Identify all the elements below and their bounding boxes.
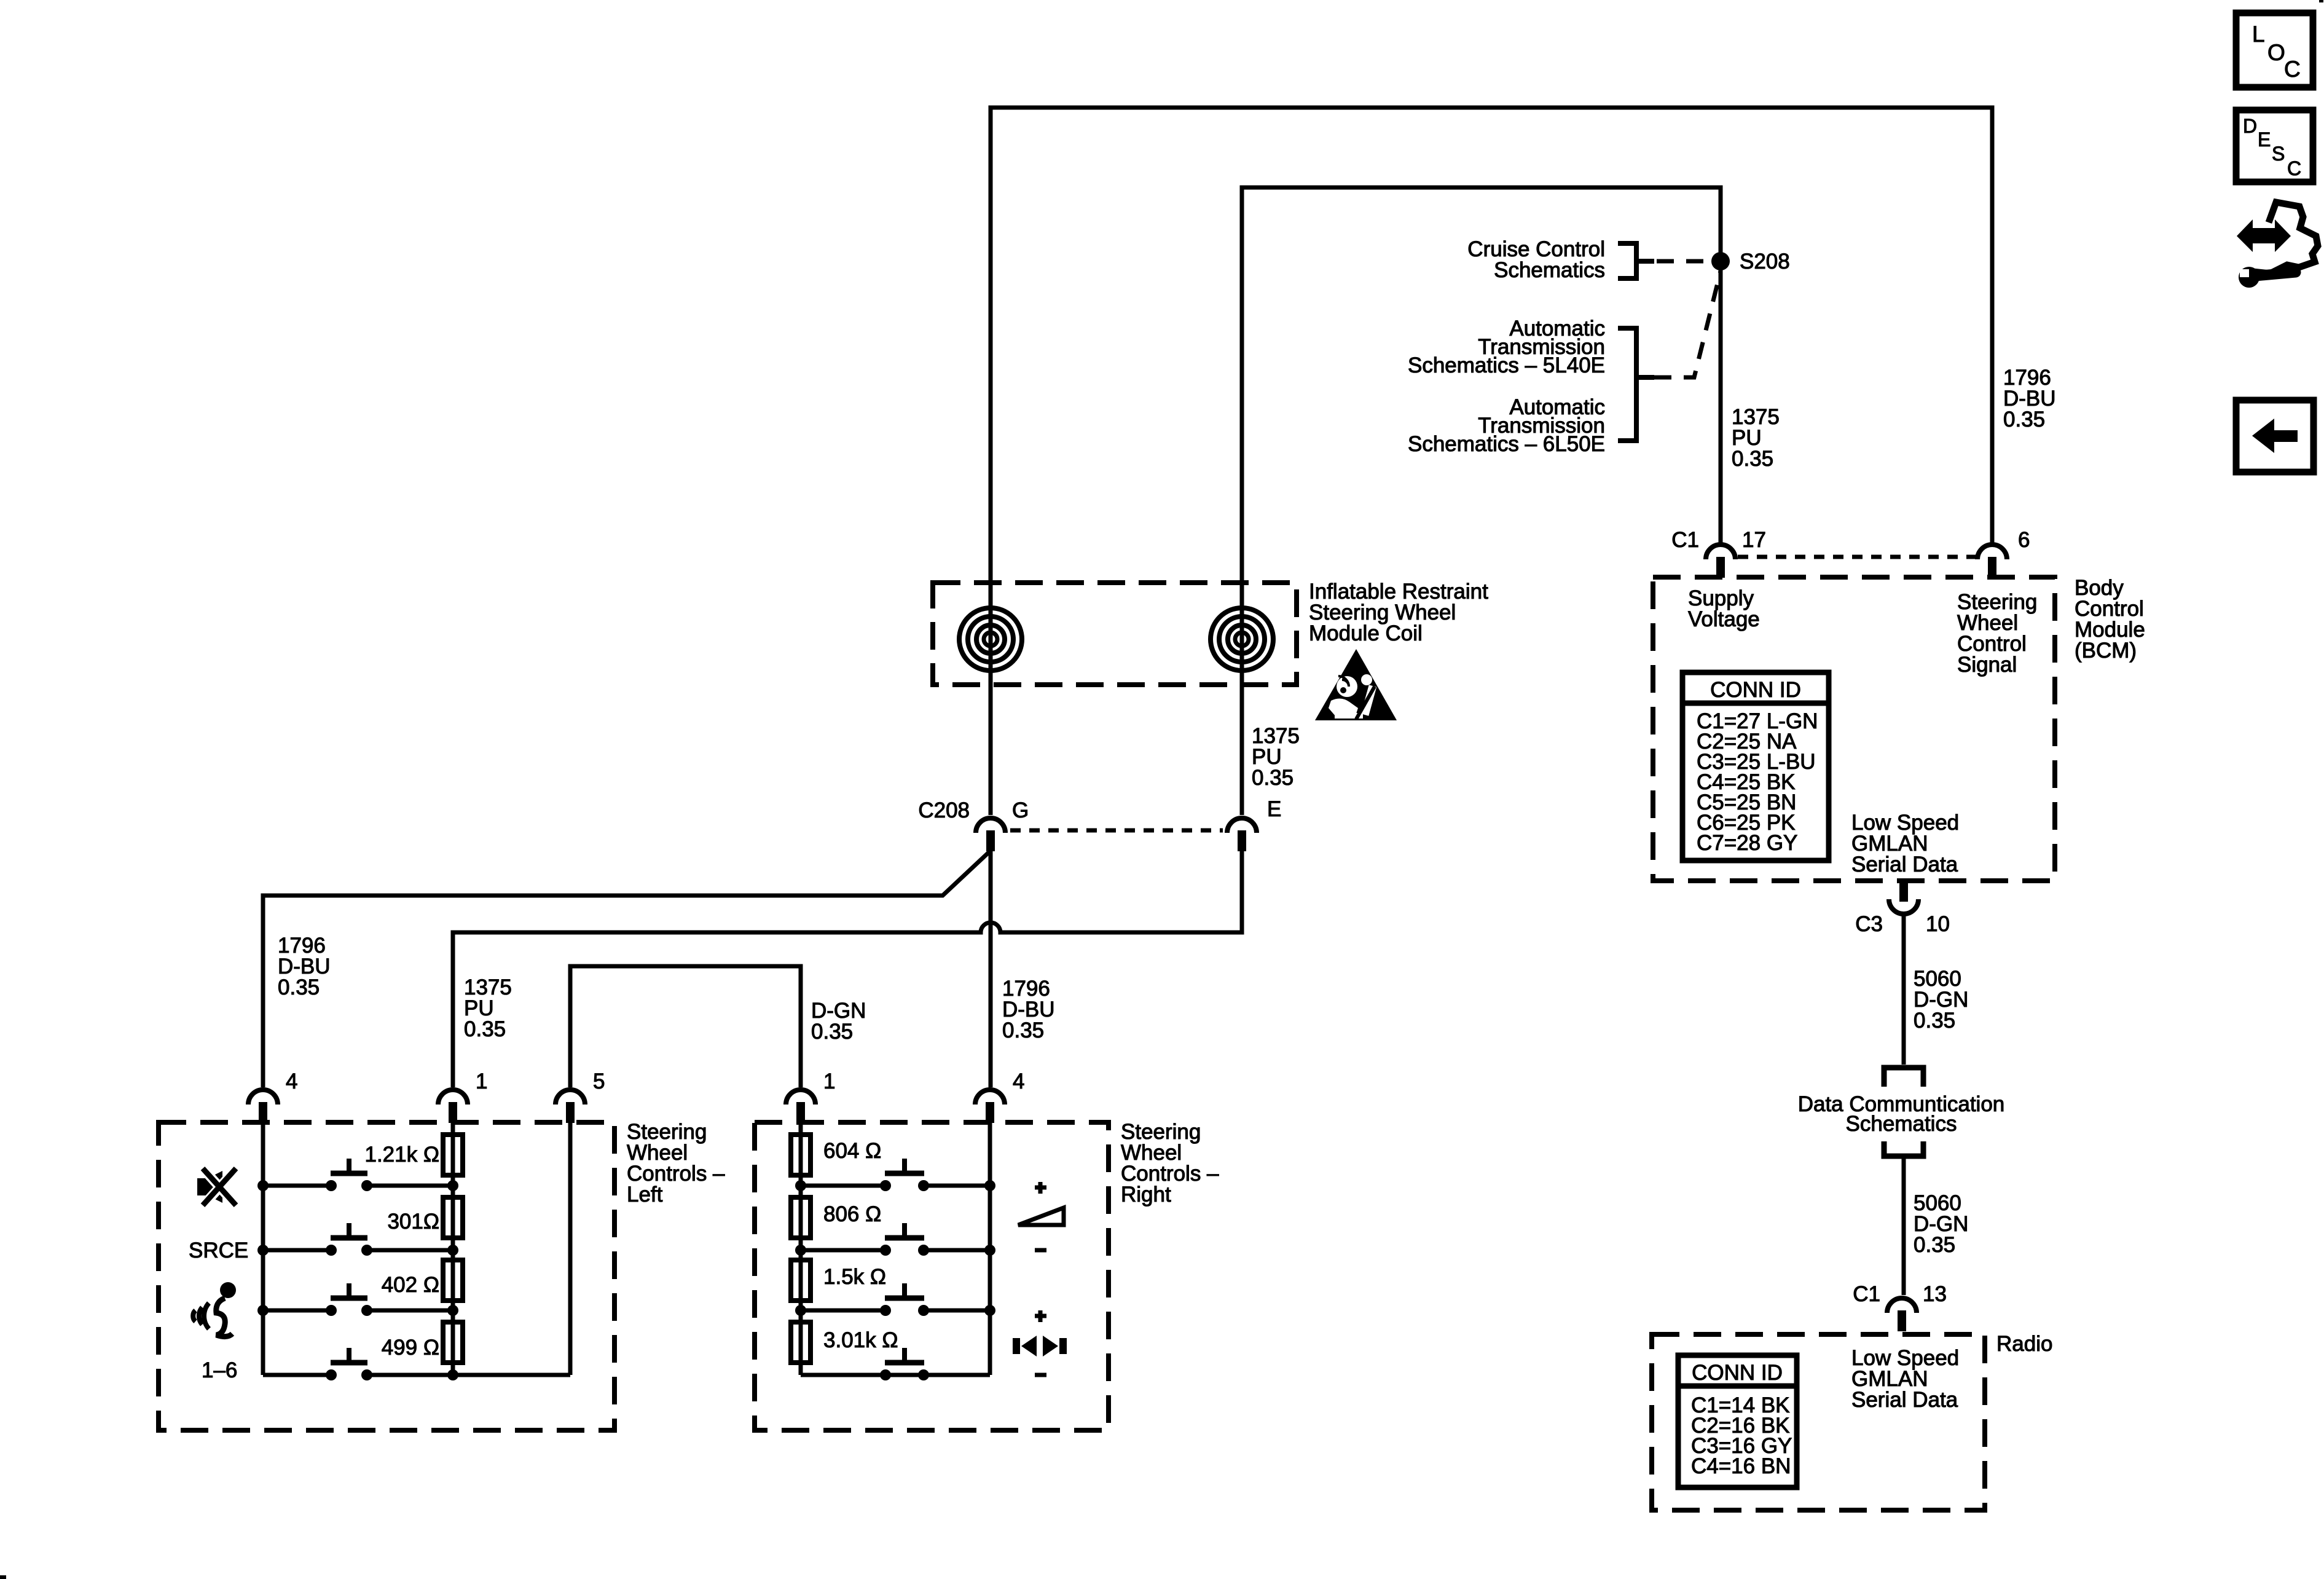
svg-text:SRCE: SRCE	[189, 1238, 248, 1262]
svg-text:301Ω: 301Ω	[387, 1210, 439, 1234]
svg-text:C7=28 GY: C7=28 GY	[1697, 831, 1797, 855]
svg-text:3.01k Ω: 3.01k Ω	[823, 1328, 898, 1352]
svg-text:13: 13	[1923, 1282, 1947, 1306]
svg-text:C1: C1	[1853, 1282, 1880, 1306]
svg-text:Voltage: Voltage	[1688, 607, 1760, 631]
svg-text:499 Ω: 499 Ω	[382, 1336, 439, 1360]
svg-text:0.35: 0.35	[1914, 1233, 1955, 1257]
svg-text:CONN ID: CONN ID	[1692, 1361, 1783, 1385]
svg-text:C3: C3	[1855, 912, 1883, 936]
svg-text:Serial Data: Serial Data	[1851, 853, 1958, 876]
svg-text:5: 5	[593, 1069, 605, 1093]
svg-text:Schematics – 6L50E: Schematics – 6L50E	[1408, 432, 1605, 456]
svg-text:0.35: 0.35	[1732, 447, 1773, 471]
svg-text:C1: C1	[1671, 528, 1699, 552]
svg-text:Schematics – 5L40E: Schematics – 5L40E	[1408, 353, 1605, 377]
svg-text:CONN ID: CONN ID	[1710, 678, 1801, 702]
svg-text:C4=16 BN: C4=16 BN	[1691, 1454, 1791, 1478]
svg-text:0.35: 0.35	[278, 975, 320, 999]
svg-text:(BCM): (BCM)	[2075, 639, 2137, 663]
svg-text:1.21k Ω: 1.21k Ω	[364, 1143, 439, 1167]
svg-text:1: 1	[823, 1069, 835, 1093]
svg-text:L: L	[2252, 22, 2265, 47]
svg-text:1–6: 1–6	[202, 1358, 237, 1382]
svg-text:Serial Data: Serial Data	[1851, 1388, 1958, 1412]
svg-text:E: E	[2258, 128, 2271, 151]
svg-text:402 Ω: 402 Ω	[382, 1273, 439, 1297]
svg-text:806 Ω: 806 Ω	[823, 1202, 881, 1226]
svg-text:D: D	[2243, 115, 2257, 137]
svg-text:Signal: Signal	[1957, 653, 2017, 677]
svg-text:C208: C208	[918, 798, 970, 822]
svg-text:S208: S208	[1740, 250, 1790, 274]
svg-text:Radio: Radio	[1996, 1332, 2052, 1356]
svg-text:1: 1	[476, 1069, 487, 1093]
svg-text:10: 10	[1926, 912, 1950, 936]
svg-text:O: O	[2267, 40, 2285, 65]
svg-text:6: 6	[2018, 528, 2030, 552]
svg-text:1.5k Ω: 1.5k Ω	[823, 1265, 886, 1289]
svg-text:4: 4	[286, 1069, 297, 1093]
svg-text:Right: Right	[1121, 1183, 1171, 1207]
svg-text:C: C	[2284, 57, 2301, 82]
svg-text:0.35: 0.35	[1914, 1009, 1955, 1033]
svg-text:Schematics: Schematics	[1494, 258, 1605, 282]
svg-text:604 Ω: 604 Ω	[823, 1139, 881, 1163]
svg-text:Left: Left	[627, 1183, 663, 1207]
svg-text:0.35: 0.35	[464, 1017, 506, 1041]
svg-text:Module Coil: Module Coil	[1309, 621, 1423, 645]
svg-text:0.35: 0.35	[811, 1020, 853, 1044]
svg-text:0.35: 0.35	[1252, 766, 1294, 790]
svg-text:0.35: 0.35	[2003, 408, 2045, 431]
svg-text:Schematics: Schematics	[1846, 1112, 1957, 1136]
svg-text:C: C	[2287, 157, 2301, 179]
svg-text:S: S	[2272, 143, 2285, 165]
svg-text:0.35: 0.35	[1002, 1018, 1044, 1042]
svg-text:17: 17	[1742, 528, 1766, 552]
svg-text:G: G	[1012, 798, 1029, 822]
svg-text:E: E	[1267, 797, 1281, 821]
svg-text:4: 4	[1013, 1069, 1024, 1093]
